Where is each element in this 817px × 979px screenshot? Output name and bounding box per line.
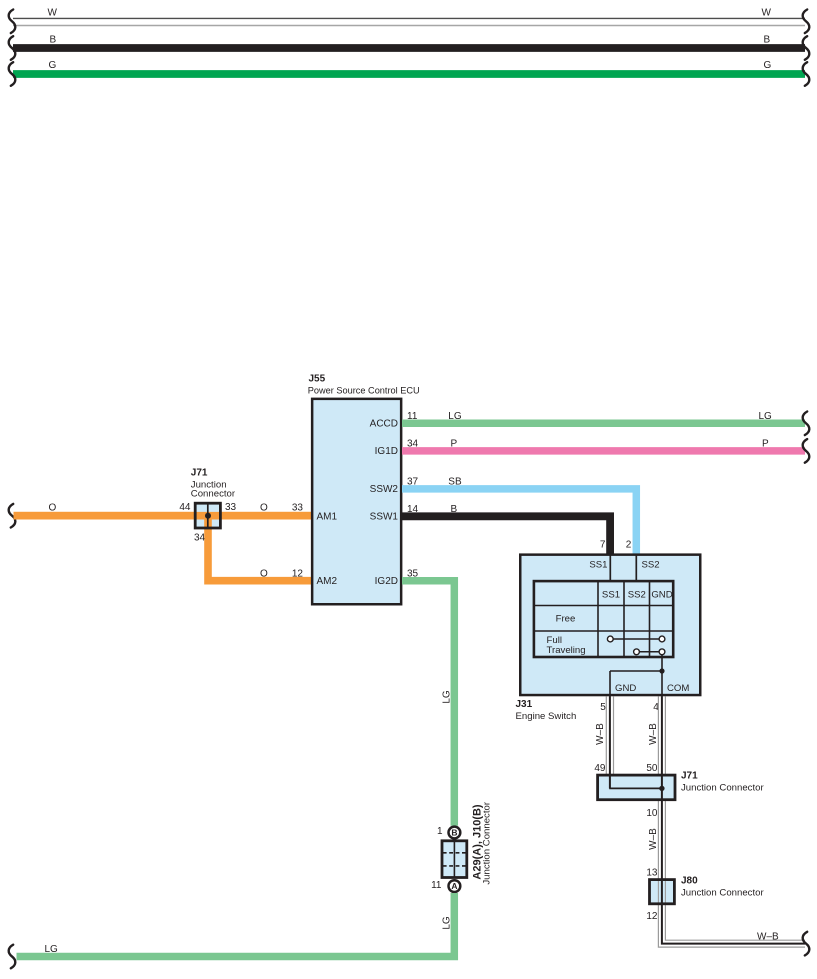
svg-text:GND: GND: [615, 683, 636, 694]
svg-text:J71: J71: [681, 770, 698, 781]
svg-text:B: B: [451, 504, 458, 515]
switch state table: [534, 581, 674, 658]
svg-text:12: 12: [292, 568, 304, 579]
svg-text:SS2: SS2: [642, 560, 660, 571]
svg-text:5: 5: [600, 702, 606, 713]
svg-text:ACCD: ACCD: [370, 419, 398, 430]
svg-text:LG: LG: [759, 411, 773, 422]
svg-text:11: 11: [407, 411, 418, 422]
wire COM inside switch: [661, 671, 663, 697]
wire break symbol G right: [803, 62, 810, 86]
svg-text:49: 49: [594, 763, 606, 774]
svg-text:10: 10: [646, 808, 658, 819]
wire break symbol LG bottom left: [9, 945, 16, 969]
svg-text:LG: LG: [45, 944, 59, 955]
svg-text:35: 35: [407, 568, 419, 579]
wire break symbol B left: [9, 36, 16, 60]
wire O from left edge to AM1: [14, 512, 312, 520]
svg-text:2: 2: [626, 540, 632, 551]
svg-text:B: B: [451, 828, 457, 838]
svg-text:W–B: W–B: [648, 828, 659, 850]
svg-text:Power Source Control ECU: Power Source Control ECU: [308, 386, 420, 396]
svg-text:A: A: [451, 881, 457, 891]
svg-text:IG2D: IG2D: [375, 576, 398, 587]
junction connector J71 (left): [14, 503, 312, 529]
switch contact SS1-GND: [607, 636, 665, 671]
junction connector J71 (lower): [598, 775, 675, 800]
terminal A: [449, 880, 461, 892]
svg-text:J55: J55: [309, 373, 326, 384]
svg-text:12: 12: [646, 911, 658, 922]
svg-text:14: 14: [407, 504, 419, 515]
svg-text:W–B: W–B: [648, 723, 659, 745]
svg-text:Connector: Connector: [191, 489, 236, 500]
svg-text:33: 33: [292, 503, 304, 514]
wire P from IG1D pin 34: [402, 447, 805, 455]
wire SS2 lead into table: [635, 555, 637, 581]
node junction dot (GND/COM tie): [659, 668, 664, 673]
wire break symbol W left: [9, 9, 16, 33]
wire break symbol G left: [9, 62, 16, 86]
wire break symbol LG right: [803, 412, 810, 436]
svg-text:J31: J31: [516, 699, 533, 710]
wire SB from SSW2 pin 37 to SS2: [402, 489, 636, 554]
svg-text:IG1D: IG1D: [375, 446, 398, 457]
wire W (top white wire): [13, 18, 805, 25]
wire B from SSW1 pin 14 to SS1: [402, 516, 610, 553]
svg-text:LG: LG: [441, 690, 452, 704]
svg-text:B: B: [50, 34, 57, 45]
svg-text:Junction Connector: Junction Connector: [482, 801, 493, 884]
wire O from J71 pin34 down and right to AM2: [208, 517, 311, 581]
terminal B: [449, 827, 461, 839]
svg-text:Junction Connector: Junction Connector: [681, 782, 764, 793]
svg-text:Engine Switch: Engine Switch: [516, 711, 577, 722]
svg-text:W: W: [762, 8, 772, 19]
svg-text:Free: Free: [556, 614, 576, 625]
svg-text:1: 1: [437, 826, 443, 837]
svg-text:COM: COM: [667, 683, 689, 694]
wire break symbol B right: [803, 36, 810, 60]
svg-text:50: 50: [646, 763, 658, 774]
svg-text:W–B: W–B: [757, 932, 779, 943]
svg-text:33: 33: [225, 502, 237, 513]
switch contact SS2-GND: [634, 649, 665, 655]
svg-text:34: 34: [407, 439, 419, 450]
wire SS1 lead into table: [609, 555, 611, 581]
svg-text:P: P: [451, 439, 458, 450]
svg-text:44: 44: [179, 502, 191, 513]
wire LG from ACCD pin 11: [402, 420, 805, 428]
svg-text:34: 34: [194, 533, 206, 544]
svg-text:LG: LG: [441, 916, 452, 930]
junction connector J80: [650, 880, 675, 904]
svg-text:G: G: [764, 60, 772, 71]
svg-text:O: O: [49, 503, 57, 514]
wire B (top black wire): [13, 44, 805, 52]
svg-text:13: 13: [646, 868, 658, 879]
wire break symbol W-B right: [803, 932, 810, 956]
svg-text:SS2: SS2: [628, 590, 646, 601]
svg-text:Junction Connector: Junction Connector: [681, 888, 764, 899]
svg-text:SB: SB: [448, 477, 462, 488]
wire GND inside switch: [610, 671, 662, 697]
svg-text:AM1: AM1: [317, 512, 338, 523]
svg-text:Traveling: Traveling: [547, 645, 586, 656]
svg-text:7: 7: [600, 540, 606, 551]
svg-text:W–B: W–B: [595, 723, 606, 745]
ECU J55 Power Source Control ECU: [312, 399, 401, 604]
svg-text:B: B: [764, 34, 771, 45]
svg-text:11: 11: [431, 880, 442, 891]
svg-text:SSW1: SSW1: [370, 512, 399, 523]
wire LG from IG2D pin 35 down: [402, 581, 454, 826]
svg-text:W: W: [48, 8, 58, 19]
wire G (top green wire): [13, 70, 805, 78]
svg-text:J80: J80: [681, 876, 698, 887]
wire break symbol P right: [803, 439, 810, 463]
svg-text:J71: J71: [191, 467, 208, 478]
wire LG from terminal A to left edge: [17, 893, 455, 957]
svg-text:O: O: [260, 568, 268, 579]
connector body A29/J10: [442, 841, 467, 878]
svg-text:G: G: [49, 60, 57, 71]
svg-text:P: P: [762, 439, 769, 450]
wire break symbol O left: [9, 504, 16, 528]
svg-text:AM2: AM2: [317, 576, 338, 587]
wire W-B from GND pin 5 to J71: [606, 697, 613, 789]
svg-text:37: 37: [407, 477, 419, 488]
svg-text:O: O: [260, 503, 268, 514]
svg-text:SS1: SS1: [589, 560, 607, 571]
svg-text:GND: GND: [651, 590, 672, 601]
wire break symbol W right: [803, 9, 810, 33]
svg-text:SSW2: SSW2: [370, 484, 399, 495]
svg-text:SS1: SS1: [602, 590, 620, 601]
svg-text:LG: LG: [448, 411, 462, 422]
engine switch J31: [520, 555, 700, 695]
wire W-B from COM pin 4 down to bottom right: [658, 697, 805, 948]
